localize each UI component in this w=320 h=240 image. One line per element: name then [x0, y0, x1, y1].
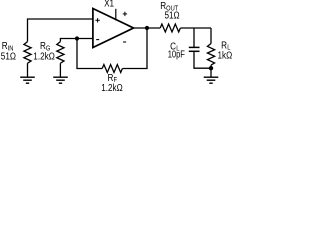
resistor RL (vertical zigzag) — [207, 44, 214, 66]
ground (below RL / CL) — [204, 77, 219, 83]
op-amp X1 (triangle) — [93, 9, 134, 48]
label RF — [108, 72, 118, 84]
wire: CL bottom stem to ground rail — [194, 52, 211, 68]
wire: RG top corner to op-amp - input — [60, 39, 93, 42]
svg-text:51Ω: 51Ω — [1, 51, 16, 62]
wire: R_OUT to load corner — [180, 27, 211, 29]
ground (below R_IN) — [20, 77, 35, 83]
label RL — [221, 40, 231, 52]
leader line from X1 to triangle — [115, 9, 117, 20]
svg-text:1kΩ: 1kΩ — [218, 50, 233, 61]
resistor R_OUT (horizontal zigzag) — [160, 24, 180, 32]
wire: output from apex — [134, 27, 161, 29]
wire: RL bottom stem — [210, 65, 212, 77]
wire: RG bottom stem — [59, 63, 61, 77]
wire: RL top stem — [210, 28, 212, 44]
node: inverting input junction — [75, 36, 79, 40]
label R_OUT — [160, 0, 178, 12]
capacitor CL plates — [189, 47, 200, 51]
svg-text:1.2kΩ: 1.2kΩ — [33, 51, 55, 62]
op-amp inside - (inverting input mark) — [96, 39, 99, 41]
svg-text:51Ω: 51Ω — [165, 10, 180, 21]
op-amp inside + (non-inverting input mark) — [95, 18, 99, 22]
ground (below RG) — [53, 77, 68, 83]
op-amp outside + (top) — [123, 12, 127, 16]
label CL — [170, 40, 180, 52]
wire: junction down to feedback row — [77, 39, 102, 69]
resistor R_IN (vertical zigzag) — [24, 42, 31, 64]
svg-text:X1: X1 — [104, 0, 114, 9]
wire: input top loop from R_IN top to op-amp + input — [28, 19, 94, 42]
label RG — [40, 40, 50, 52]
node: output junction — [145, 26, 149, 30]
svg-text:1.2kΩ: 1.2kΩ — [101, 82, 123, 93]
op-amp outside - (bottom) — [123, 41, 126, 43]
resistor RF (horizontal zigzag) — [102, 65, 122, 73]
wire: R_IN bottom stem — [27, 63, 29, 77]
svg-text:10pF: 10pF — [168, 49, 186, 60]
node: load ground junction — [209, 66, 213, 70]
wire: CL top stem — [193, 28, 195, 47]
wire: RF right side up to output node — [122, 28, 147, 69]
label R_IN — [2, 40, 14, 52]
resistor RG (vertical zigzag) — [57, 42, 64, 64]
